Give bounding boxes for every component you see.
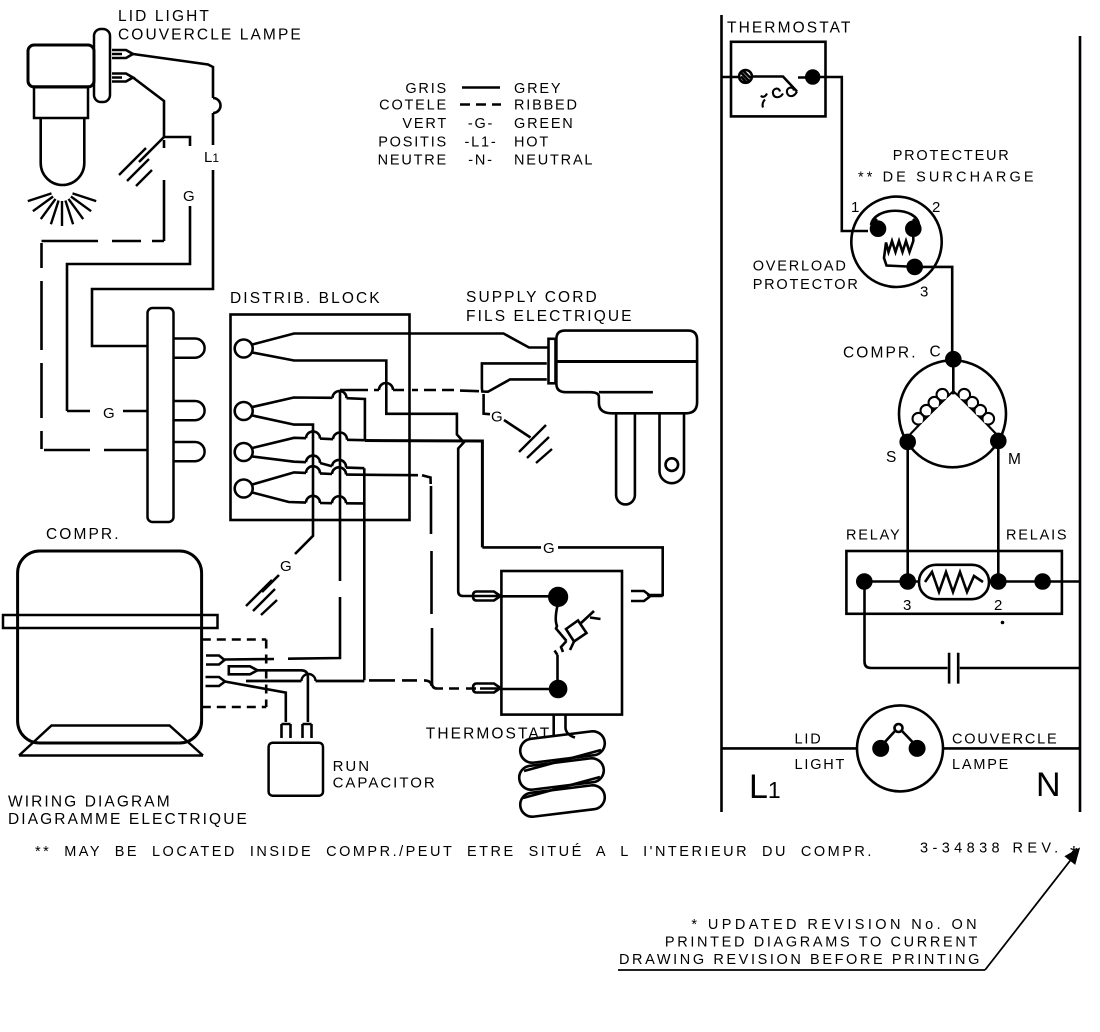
svg-text:DRAWING REVISION BEFORE PRINTI: DRAWING REVISION BEFORE PRINTING [619,952,982,968]
svg-text:LIGHT: LIGHT [795,757,847,773]
svg-text:*: * [1070,843,1078,865]
svg-text:-N-: -N- [468,153,494,169]
svg-text:LID LIGHT: LID LIGHT [118,8,211,25]
svg-text:COUVERCLE: COUVERCLE [952,732,1058,748]
svg-text:DIAGRAMME ELECTRIQUE: DIAGRAMME ELECTRIQUE [8,811,249,828]
svg-text:3: 3 [920,284,928,301]
svg-text:COTELE: COTELE [379,98,448,114]
svg-text:C: C [930,344,943,361]
svg-text:2: 2 [994,597,1002,614]
svg-text:L1: L1 [749,768,781,806]
svg-text:N: N [1036,766,1061,804]
svg-text:S: S [886,449,898,466]
svg-text:LID: LID [795,732,823,748]
svg-text:NEUTRAL: NEUTRAL [514,153,594,169]
svg-text:HOT: HOT [514,135,550,151]
svg-text:2: 2 [932,199,940,216]
svg-text:G: G [543,540,555,557]
svg-text:** DE SURCHARGE: ** DE SURCHARGE [858,170,1037,186]
svg-text:THERMOSTAT: THERMOSTAT [727,20,852,37]
svg-text:DISTRIB. BLOCK: DISTRIB. BLOCK [230,290,382,307]
svg-text:PROTECTEUR: PROTECTEUR [893,148,1011,164]
svg-text:NEUTRE: NEUTRE [378,153,448,169]
svg-text:OVERLOAD: OVERLOAD [753,259,848,275]
svg-text:-G-: -G- [468,116,494,132]
svg-text:LAMPE: LAMPE [952,757,1010,773]
svg-text:FILS ELECTRIQUE: FILS ELECTRIQUE [466,308,634,325]
svg-text:G: G [183,188,195,205]
svg-text:G: G [491,409,503,426]
svg-text:GRIS: GRIS [405,81,448,97]
svg-text:RELAIS: RELAIS [1006,528,1068,544]
svg-text:-L1-: -L1- [465,135,498,151]
svg-text:PRINTED DIAGRAMS TO CURRENT: PRINTED DIAGRAMS TO CURRENT [665,935,980,951]
svg-text:1: 1 [851,199,859,216]
svg-text:L1: L1 [204,149,219,166]
svg-text:CAPACITOR: CAPACITOR [333,775,437,792]
svg-text:GREEN: GREEN [514,116,575,132]
svg-text:G: G [280,558,292,575]
svg-text:COMPR.: COMPR. [46,526,121,543]
svg-text:WIRING DIAGRAM: WIRING DIAGRAM [8,794,172,811]
svg-text:GREY: GREY [514,81,562,97]
svg-text:VERT: VERT [402,116,448,132]
svg-text:3-34838 REV.: 3-34838 REV. [920,841,1063,857]
svg-text:RELAY: RELAY [846,528,901,544]
svg-text:M: M [1008,451,1023,468]
svg-text:COMPR.: COMPR. [843,345,918,362]
svg-text:POSITIS: POSITIS [378,135,448,151]
svg-text:SUPPLY CORD: SUPPLY CORD [466,289,599,306]
svg-text:PROTECTOR: PROTECTOR [753,277,860,293]
svg-text:** MAY BE LOCATED INSIDE COMPR: ** MAY BE LOCATED INSIDE COMPR./PEUT ETR… [35,843,874,860]
svg-text:THERMOSTAT: THERMOSTAT [426,726,551,743]
svg-text:RIBBED: RIBBED [514,98,579,114]
svg-text:* UPDATED REVISION No. ON: * UPDATED REVISION No. ON [691,917,980,933]
svg-text:COUVERCLE LAMPE: COUVERCLE LAMPE [118,27,303,44]
svg-text:3: 3 [903,597,911,614]
svg-text:G: G [103,405,115,422]
svg-text:RUN: RUN [333,758,372,775]
